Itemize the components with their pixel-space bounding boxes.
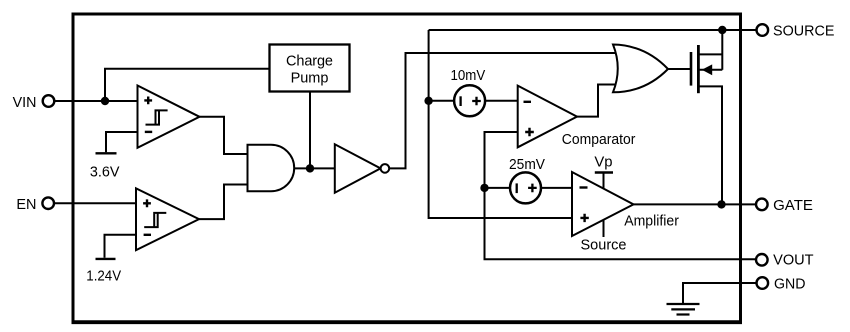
svg-text:10mV: 10mV	[451, 68, 486, 84]
svg-text:Amplifier: Amplifier	[624, 213, 679, 229]
svg-text:SOURCE: SOURCE	[773, 24, 835, 40]
svg-text:Source: Source	[581, 238, 627, 254]
svg-text:Vp: Vp	[594, 155, 612, 171]
svg-text:GATE: GATE	[773, 198, 813, 214]
svg-text:EN: EN	[16, 197, 36, 213]
svg-text:Pump: Pump	[291, 71, 329, 87]
svg-text:VOUT: VOUT	[773, 253, 814, 269]
svg-text:3.6V: 3.6V	[90, 164, 120, 180]
svg-text:Comparator: Comparator	[562, 132, 636, 148]
svg-text:Charge: Charge	[286, 54, 333, 70]
svg-text:GND: GND	[774, 277, 806, 293]
svg-text:1.24V: 1.24V	[86, 269, 121, 285]
svg-text:VIN: VIN	[13, 95, 37, 111]
svg-text:25mV: 25mV	[509, 157, 545, 173]
